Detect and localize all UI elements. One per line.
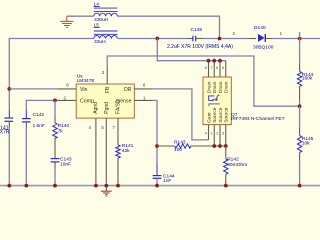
diode D140 <box>258 34 265 42</box>
wire FB net <box>107 56 298 106</box>
wire below C141 to bus <box>8 122 10 128</box>
svg-text:5: 5 <box>222 66 224 70</box>
svg-text:FA/SD: FA/SD <box>116 99 122 114</box>
svg-text:7: 7 <box>112 125 115 130</box>
svg-text:2.2uF X7R 100V (IRMS 4,4A): 2.2uF X7R 100V (IRMS 4,4A) <box>167 44 233 50</box>
svg-text:1.5nF: 1.5nF <box>33 123 45 129</box>
wire isense to R143 <box>157 145 175 147</box>
svg-text:7: 7 <box>210 66 212 70</box>
wire comp node down to R140 <box>54 100 56 115</box>
IC Us LM3478 body <box>76 84 134 118</box>
wire Vin pin8 <box>9 88 58 90</box>
wire C143 to bus <box>54 163 56 170</box>
gate pin stub <box>208 125 210 140</box>
wire diode to out <box>266 38 273 40</box>
wire R140 to C143 <box>54 139 56 147</box>
wire isense net <box>152 100 157 163</box>
svg-text:Drain: Drain <box>206 81 212 93</box>
wire C145 to D140 <box>196 38 203 40</box>
node source junction 1 <box>212 144 216 148</box>
capacitor C144 <box>153 176 162 179</box>
node bus junction R145 <box>298 184 302 188</box>
wire R143 to sources <box>191 145 226 147</box>
wire gate drive <box>152 89 209 140</box>
svg-text:5: 5 <box>101 125 104 130</box>
svg-text:R141: R141 <box>122 143 134 149</box>
ground earth top <box>60 16 73 27</box>
node drain junction 2 <box>212 59 216 63</box>
resistor R140 <box>53 123 57 139</box>
svg-text:6: 6 <box>143 83 146 88</box>
wire C142 to bus <box>25 123 27 129</box>
svg-text:4: 4 <box>89 125 92 130</box>
node comp junction <box>53 99 57 103</box>
svg-text:Gate: Gate <box>206 112 212 123</box>
node Vin junction <box>7 87 11 91</box>
svg-text:8: 8 <box>205 66 207 70</box>
svg-text:R143: R143 <box>174 139 186 145</box>
node bus junction C144 <box>155 184 159 188</box>
wire out node down to R144 <box>299 39 301 64</box>
svg-text:2: 2 <box>216 131 218 135</box>
capacitor C142 <box>22 119 31 122</box>
svg-text:1: 1 <box>143 95 146 100</box>
svg-text:40mOhm: 40mOhm <box>227 162 247 168</box>
wire R142 to bus <box>225 174 227 185</box>
svg-text:30BQ100: 30BQ100 <box>253 45 274 51</box>
wire L5 to C145 <box>117 38 186 40</box>
svg-text:IRF7493 N-Channel FET: IRF7493 N-Channel FET <box>231 116 285 122</box>
pin DR stub <box>134 88 151 90</box>
svg-text:R140: R140 <box>58 123 70 129</box>
svg-text:3: 3 <box>102 70 105 75</box>
wire sources down to R142 <box>225 146 227 159</box>
node bus junction C143 <box>53 184 57 188</box>
node source junction 2 <box>218 144 222 148</box>
svg-text:0uF X7R: 0uF X7R <box>0 130 10 136</box>
node drain junction 1 <box>207 59 211 63</box>
resistor R145 <box>297 136 301 153</box>
svg-text:DR: DR <box>124 87 132 93</box>
svg-text:100: 100 <box>174 147 182 153</box>
capacitor C145 <box>193 36 196 42</box>
svg-text:33uH: 33uH <box>94 39 106 45</box>
node bus junction Agnd <box>94 184 98 188</box>
node isense junction <box>155 144 159 148</box>
svg-text:10nF: 10nF <box>60 161 71 167</box>
wire input rail left <box>9 39 93 110</box>
svg-text:6: 6 <box>216 66 218 70</box>
inductor L5 <box>94 31 118 39</box>
resistor R142 <box>224 159 228 174</box>
transistor Q7 body <box>203 77 231 125</box>
svg-text:LM3478: LM3478 <box>77 78 95 84</box>
svg-text:Drain: Drain <box>224 81 230 93</box>
svg-text:1nF: 1nF <box>163 178 171 184</box>
svg-text:Vin: Vin <box>80 87 88 93</box>
svg-text:C142: C142 <box>33 112 45 118</box>
svg-text:4: 4 <box>205 131 207 135</box>
source pin stubs <box>214 125 226 146</box>
wire top L4 row <box>67 15 94 17</box>
svg-text:7k: 7k <box>58 129 64 135</box>
wire C144 to bus <box>156 179 158 185</box>
wire fb node to R145 and to bus <box>299 106 301 128</box>
pin FA/SD with resistor R141 <box>117 118 119 145</box>
node bus junction R142 <box>224 184 228 188</box>
node source junction 3 <box>224 144 228 148</box>
node drain junction 3 <box>218 59 222 63</box>
IC bottom pin stubs to ground bus <box>95 118 97 186</box>
svg-text:2: 2 <box>233 31 236 36</box>
drain pin stubs <box>209 61 226 77</box>
node bus junction R141 <box>116 184 120 188</box>
node bus junction C141 <box>7 184 11 188</box>
resistor R144 <box>297 71 301 86</box>
svg-text:Pgnd: Pgnd <box>104 102 110 114</box>
svg-text:Drain: Drain <box>218 81 224 93</box>
ground bus <box>0 185 320 187</box>
pin FB stub <box>106 67 108 85</box>
node SW junction <box>155 37 159 41</box>
svg-text:160k: 160k <box>302 76 313 82</box>
capacitor C141 <box>4 118 13 121</box>
svg-text:C145: C145 <box>191 27 203 33</box>
wire Comp pin2 run <box>58 99 77 101</box>
svg-text:Drain: Drain <box>212 81 218 93</box>
svg-text:Comp: Comp <box>80 98 94 104</box>
wire L4 right to C145 node <box>117 16 219 38</box>
svg-text:42k: 42k <box>122 148 130 154</box>
capacitor C143 <box>51 159 60 162</box>
svg-text:Source: Source <box>212 107 218 123</box>
svg-text:1: 1 <box>280 31 283 36</box>
svg-text:3: 3 <box>222 131 224 135</box>
node C145/L4/D140 junction <box>218 37 222 41</box>
pin Isense stub <box>134 99 152 101</box>
node bus junction C142 <box>24 184 28 188</box>
svg-text:10k: 10k <box>302 140 310 146</box>
wire R144 to fb node <box>299 86 301 100</box>
svg-text:2: 2 <box>64 95 67 100</box>
svg-text:Agnd: Agnd <box>93 102 99 114</box>
node diode out junction <box>298 37 302 41</box>
svg-text:Source: Source <box>218 107 224 123</box>
svg-text:R142: R142 <box>227 156 239 162</box>
ground earth bottom <box>101 187 112 197</box>
inductor L4 <box>94 8 118 16</box>
svg-text:330uH: 330uH <box>94 17 109 23</box>
wire stub up at out node <box>299 32 301 39</box>
svg-text:FB: FB <box>105 86 111 93</box>
resistor R143 <box>175 144 191 148</box>
node bus junction Pgnd <box>104 184 108 188</box>
FET icon inside Q7 <box>209 95 220 101</box>
svg-text:Source: Source <box>224 107 230 123</box>
wire drain bus <box>157 39 225 61</box>
svg-text:D140: D140 <box>254 25 266 31</box>
node FB divider junction <box>298 104 302 108</box>
svg-text:1: 1 <box>210 131 212 135</box>
svg-text:8: 8 <box>66 83 69 88</box>
